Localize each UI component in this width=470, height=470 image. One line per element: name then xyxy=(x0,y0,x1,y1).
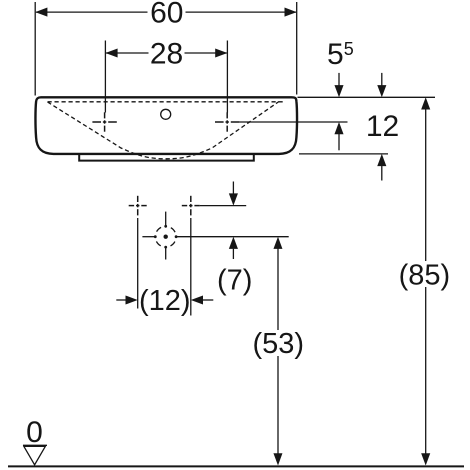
leader line from fixing hole to right xyxy=(200,205,246,207)
tap hole left crosshair xyxy=(92,112,116,131)
dimension 12 upper stub xyxy=(381,73,383,86)
dimension (12) right tail xyxy=(203,299,213,301)
svg-text:(53): (53) xyxy=(253,328,305,360)
ground line xyxy=(8,465,464,467)
overflow hole circle xyxy=(161,109,171,119)
leader line from basin top edge to right xyxy=(298,96,436,98)
datum underline xyxy=(23,444,47,446)
drain hole centre mark top arm xyxy=(165,212,167,226)
dimension 60 arrow left xyxy=(35,8,47,17)
dimension 28 arrow left xyxy=(105,48,117,57)
drain circle cardinal dot top xyxy=(164,225,167,228)
dimension (12) left tail xyxy=(116,299,126,301)
svg-text:(85): (85) xyxy=(399,260,451,292)
dimension 60 line right segment xyxy=(186,11,297,13)
dimension 28 extension line left xyxy=(104,41,106,113)
dimension (7) lower stub xyxy=(232,249,234,259)
dimension (85) up arrow xyxy=(421,97,430,109)
drain hole centre dot xyxy=(164,235,168,239)
drain hole centre mark bottom arm xyxy=(165,248,167,259)
leader line from basin bottom to right xyxy=(299,153,388,155)
leader line from drain centre to right xyxy=(177,236,289,238)
dimension 5.5 down arrow xyxy=(334,85,343,97)
drain hole centre mark left arm xyxy=(142,236,154,238)
svg-text:(7): (7) xyxy=(217,265,252,297)
dimension 28 extension line right xyxy=(226,41,228,113)
dimension (12) right arrow xyxy=(191,295,203,304)
dimension (12) left arrow xyxy=(126,295,138,304)
dimension (7) upper stub xyxy=(232,182,234,194)
drain circle cardinal dot right xyxy=(175,235,178,238)
dimension 28 line right segment xyxy=(185,52,227,54)
svg-text:(12): (12) xyxy=(139,285,191,317)
washbasin inner bowl dashed outline xyxy=(48,102,280,159)
dimension 5.5 lower stub xyxy=(338,134,340,150)
dimension (53) down arrow xyxy=(273,453,282,465)
dimension 60 arrow right xyxy=(285,8,297,17)
dimension (7) up arrow xyxy=(229,237,238,249)
tap hole right crosshair xyxy=(215,112,239,131)
dimension 28 line left segment xyxy=(106,52,149,54)
dimension 12 up arrow xyxy=(377,154,386,166)
dimension 28 arrow right xyxy=(215,48,227,57)
svg-text:12: 12 xyxy=(366,110,399,143)
drain hole dashed circle xyxy=(155,226,176,247)
dimension (12) extension line right xyxy=(190,218,192,316)
drain circle cardinal dot bottom xyxy=(164,246,167,249)
dimension 12 lower stub xyxy=(381,166,383,181)
dimension 5.5 up arrow xyxy=(334,122,343,134)
fixing hole left crosshair xyxy=(129,196,147,216)
dimension 60 line left segment xyxy=(36,11,148,13)
svg-text:28: 28 xyxy=(150,37,183,70)
svg-text:60: 60 xyxy=(150,0,183,29)
drain circle cardinal dot left xyxy=(154,235,157,238)
white mask behind (85) label xyxy=(399,261,450,287)
washbasin outer outline xyxy=(35,97,297,154)
dimension (85) down arrow xyxy=(421,453,430,465)
leader line from tap hole to right xyxy=(239,121,347,123)
datum triangle xyxy=(24,446,45,464)
dimension 60 extension line right xyxy=(296,2,298,95)
washbasin bottom recess xyxy=(79,154,254,160)
fixing hole right crosshair xyxy=(182,196,200,216)
white mask behind (53) label xyxy=(253,330,304,356)
dimension (85) vertical line xyxy=(425,108,427,454)
dimension 60 extension line left xyxy=(34,2,36,96)
dimension (12) extension line left xyxy=(137,218,139,309)
dimension 12 down arrow xyxy=(377,85,386,97)
dimension (53) vertical line xyxy=(277,248,279,454)
svg-text:0: 0 xyxy=(26,416,43,449)
dimension (53) up arrow xyxy=(273,237,282,249)
washbasin top dashed edge xyxy=(48,101,285,103)
dimension (7) down arrow xyxy=(229,193,238,205)
dimension 5.5 upper stub xyxy=(338,73,340,86)
